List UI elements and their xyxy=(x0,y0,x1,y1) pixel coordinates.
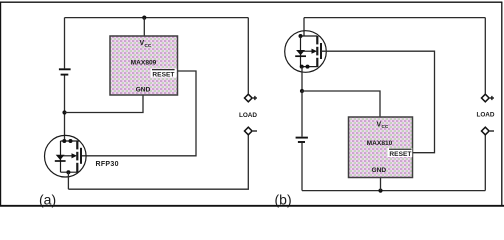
node LOAD plus terminal (a) xyxy=(245,94,253,102)
wire source lead (b) xyxy=(301,67,303,91)
node GND junction (b) xyxy=(378,189,382,193)
wire bottom rail (a) xyxy=(68,135,248,189)
wire Vcc route (b) xyxy=(302,91,380,117)
node LOAD plus terminal (b) xyxy=(482,94,490,102)
battery B2 xyxy=(296,138,308,142)
node LOAD minus terminal (b) xyxy=(482,127,490,135)
label plus (b) xyxy=(490,96,494,100)
wire top rail (a) xyxy=(65,17,249,19)
wire RESET to gate (a) xyxy=(81,71,196,156)
battery B1 xyxy=(59,69,71,74)
node GND junction (a) xyxy=(62,110,66,114)
wire GND pin (b) xyxy=(380,178,382,191)
svg-text:CC: CC xyxy=(145,43,152,48)
svg-text:MAX810: MAX810 xyxy=(367,140,393,147)
label plus (a) xyxy=(253,96,257,100)
label minus (b) xyxy=(490,130,494,132)
svg-text:CC: CC xyxy=(382,124,389,129)
svg-text:(a): (a) xyxy=(39,192,56,208)
svg-text:GND: GND xyxy=(136,87,151,94)
wire top rail (b) xyxy=(304,17,485,19)
wire source to bottom rail (a) xyxy=(67,172,69,189)
node source junction (b) xyxy=(300,89,304,93)
wire LOAD minus riser (b) xyxy=(484,135,486,191)
wire drain lead (b) xyxy=(303,18,305,36)
pin label RESET (U1) xyxy=(151,69,177,79)
svg-text:RESET: RESET xyxy=(389,151,411,158)
node Vcc junction (a) xyxy=(142,16,146,20)
node LOAD minus terminal (a) xyxy=(245,127,253,135)
svg-text:RFP30: RFP30 xyxy=(96,161,119,168)
op-amp U2 MAX810 body xyxy=(349,117,413,178)
wire Vcc pin (a) xyxy=(143,18,145,36)
wire gate to RESET (b) xyxy=(321,51,435,153)
wire LOAD plus riser (a) xyxy=(247,18,249,95)
wire battery top lead (b) xyxy=(301,91,303,137)
transistor Q2 xyxy=(285,31,327,73)
svg-text:LOAD: LOAD xyxy=(239,112,257,119)
op-amp U1 MAX809 body xyxy=(110,36,178,95)
wire battery top lead (a) xyxy=(64,18,66,69)
wire bottom rail (b) xyxy=(302,190,485,192)
svg-text:(b): (b) xyxy=(275,192,292,208)
svg-text:RESET: RESET xyxy=(152,72,174,79)
wire LOAD plus riser (b) xyxy=(484,18,486,95)
wire battery bottom lead (b) xyxy=(301,143,303,191)
wire GND return (a) xyxy=(65,95,144,113)
wire battery bottom to MOSFET drain (a) xyxy=(64,76,66,142)
label minus (a) xyxy=(253,130,257,132)
pin label RESET (U2) xyxy=(388,148,413,158)
svg-text:MAX809: MAX809 xyxy=(131,59,157,66)
svg-text:LOAD: LOAD xyxy=(476,112,494,119)
transistor Q1 xyxy=(45,135,87,177)
svg-text:GND: GND xyxy=(371,167,386,174)
